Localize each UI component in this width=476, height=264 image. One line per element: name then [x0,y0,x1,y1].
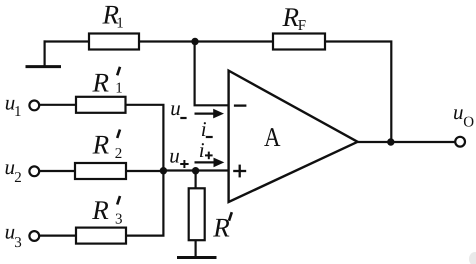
terminal u1 [5,91,40,121]
svg-text:R: R [92,67,110,97]
junction dot at R' tap [192,167,199,174]
op-amp A [229,71,358,202]
svg-text:3: 3 [14,235,21,251]
ground (bottom) [177,256,217,259]
wire RF to output node [325,42,391,143]
resistor R' (vertical) [189,188,232,242]
wire node A down to inverting input [195,42,229,106]
wire op-amp output to terminal [358,141,456,143]
svg-text:i: i [199,138,205,162]
svg-text:A: A [264,122,281,152]
svg-text:R: R [212,212,230,242]
terminal uO [453,100,474,147]
resistor R'3 [76,195,126,244]
resistor R'1 [76,67,126,113]
svg-text:1: 1 [14,104,22,120]
ground (top-left) [26,40,62,66]
current arrow i- [195,109,225,141]
wire u1 to R'1 [39,104,76,106]
svg-text:F: F [298,18,306,34]
node A junction dot [191,38,198,45]
corner smudge [469,252,476,264]
current arrow i+ [195,138,225,167]
svg-text:u: u [453,100,464,124]
wire R' tap down [195,171,197,189]
terminal u3 [5,220,40,251]
terminal u2 [5,155,40,186]
svg-text:R: R [92,129,110,159]
junction dot at u+ node (bus) [160,167,167,174]
resistor RF [273,2,325,50]
svg-text:2: 2 [115,146,123,162]
output junction dot [387,138,394,145]
wire R' to ground [195,240,197,256]
wire u3 to R'3 [39,235,76,237]
resistor R1 [89,0,139,50]
wire u2 to R'2 [39,170,75,172]
svg-text:1: 1 [115,80,123,96]
resistor R'2 [75,129,126,179]
svg-text:3: 3 [115,212,123,228]
svg-text:u: u [170,96,181,120]
wire R1 to RF [139,40,273,42]
svg-text:1: 1 [116,16,124,32]
wire ground to R1 [44,40,90,42]
wire junction to non-inverting input [163,169,228,171]
label u+ [169,143,188,168]
wire R'1 to input bus and bus down to R'3 wire [126,105,164,236]
svg-text:2: 2 [14,170,22,186]
label u- [170,96,186,120]
svg-text:O: O [463,115,474,131]
svg-text:R: R [282,2,300,32]
wire R'2 to junction [126,170,163,172]
svg-text:u: u [169,143,180,167]
svg-text:R: R [91,195,109,225]
